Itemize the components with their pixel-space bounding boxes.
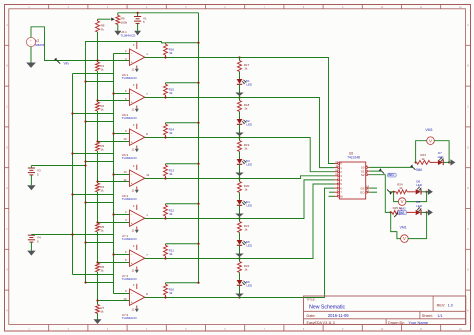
svg-text:TL084ACD: TL084ACD <box>122 116 138 120</box>
wire A2 out <box>370 175 391 213</box>
svg-text:TL084ACD: TL084ACD <box>122 316 138 320</box>
resistor R8 <box>96 19 105 60</box>
ground op-amp U7.2 <box>135 270 139 273</box>
svg-text:3k: 3k <box>169 131 173 135</box>
resistor R14 <box>164 122 200 138</box>
svg-text:1k: 1k <box>100 268 104 272</box>
ground D6 <box>235 294 243 298</box>
wire tap4 x85 <box>84 201 113 203</box>
resistor R21 <box>238 219 250 241</box>
svg-text:7k: 7k <box>101 27 105 31</box>
wire pin2 stage5 <box>112 213 129 215</box>
resistor R7 <box>96 301 105 320</box>
svg-text:C: C <box>6 106 8 109</box>
net flag Bit2 <box>394 211 406 217</box>
ground D2 <box>235 133 243 137</box>
resistor R15 <box>164 82 200 98</box>
svg-text:Your Name: Your Name <box>408 320 429 325</box>
svg-text:1k: 1k <box>421 157 425 161</box>
svg-text:1k: 1k <box>244 147 248 151</box>
svg-text:Bit1: Bit1 <box>388 173 394 177</box>
svg-text:S2: S2 <box>361 173 365 177</box>
wire tap3 x72 <box>71 152 113 154</box>
svg-text:LED: LED <box>246 284 253 288</box>
svg-text:10: 10 <box>123 137 127 141</box>
LED D3 <box>237 159 253 167</box>
ground ladder bottom <box>94 319 102 324</box>
label op-amp U7.3 <box>122 313 138 320</box>
svg-text:EasyEDA V3.11.3: EasyEDA V3.11.3 <box>307 321 335 325</box>
label op-amp U6.2 <box>122 113 138 120</box>
LED D1 <box>237 79 253 87</box>
svg-text:D: D <box>6 146 8 149</box>
wire pin2 stage6 <box>112 253 129 255</box>
wire pin2 stage7 <box>114 293 130 295</box>
voltage source V2 <box>26 37 45 47</box>
wire V4 to bus <box>31 233 73 235</box>
svg-text:D: D <box>467 146 469 149</box>
ground D1 <box>235 93 243 97</box>
op-amp U6.1 <box>125 42 148 72</box>
title block <box>304 296 466 325</box>
label op-amp U7.1 <box>122 234 138 241</box>
svg-text:11: 11 <box>131 68 134 72</box>
bus x113 <box>113 54 115 294</box>
svg-text:+: + <box>131 60 133 64</box>
wire D2 cathode <box>239 125 241 138</box>
wire pin2 stage2 <box>112 92 129 94</box>
svg-text:TL084ACD: TL084ACD <box>122 156 138 160</box>
svg-text:+: + <box>131 181 133 185</box>
svg-text:V: V <box>403 236 406 241</box>
wire stage2 to U8 <box>240 98 335 168</box>
wire vplus rail <box>86 42 166 61</box>
resistor R2 <box>96 101 105 142</box>
ground under R9 <box>114 25 121 36</box>
wire tap4 x72 <box>71 193 113 195</box>
resistor R9 <box>116 13 128 25</box>
resistor R5 <box>96 223 105 263</box>
svg-text:74LS148: 74LS148 <box>347 155 360 159</box>
wire VM3 right <box>434 141 449 163</box>
ground op-amp U7.3 <box>135 309 139 312</box>
wire V2 top to Vin <box>31 27 98 61</box>
svg-text:LED: LED <box>246 204 253 208</box>
svg-text:VM3: VM3 <box>425 128 432 132</box>
resistor R18 <box>238 98 250 120</box>
wire stage1 to U8 <box>240 58 335 164</box>
svg-text:+: + <box>131 261 133 265</box>
wire output stage5 <box>145 217 241 219</box>
label U6.1 power <box>121 30 137 37</box>
ground op-amp U6.1 <box>135 69 139 72</box>
ground under V3 <box>27 175 35 190</box>
resistor R3 <box>96 142 105 182</box>
battery V3 <box>28 166 41 177</box>
svg-text:1k: 1k <box>244 188 248 192</box>
svg-text:+: + <box>131 300 133 304</box>
wire VM2 left <box>394 192 399 202</box>
ground D5 <box>235 254 243 258</box>
svg-text:+: + <box>131 100 133 104</box>
wire stage7 to U8 <box>240 188 335 297</box>
wire A0 out <box>370 166 413 168</box>
svg-text:Date:: Date: <box>307 314 316 318</box>
LED D9 <box>416 200 423 215</box>
resistor R10 <box>164 282 200 298</box>
wire stage5 to U8 <box>240 180 335 219</box>
ground D3 <box>235 173 243 177</box>
wire pin3 stage3 <box>96 140 129 142</box>
wire pin2 stage1 <box>114 53 130 55</box>
LED D8 <box>416 180 423 195</box>
svg-text:VM1: VM1 <box>400 226 407 230</box>
wire tap1 x85 <box>84 80 113 82</box>
svg-text:100k: 100k <box>121 20 128 24</box>
label op-amp U7.2 <box>122 274 138 281</box>
wire tap1 x72 <box>73 73 114 75</box>
net flag into R24 <box>387 189 394 194</box>
voltmeter VM1 <box>400 226 409 243</box>
svg-text:−: − <box>131 292 133 296</box>
svg-text:−: − <box>131 213 133 217</box>
rail down right <box>198 13 200 283</box>
svg-text:1.0: 1.0 <box>448 303 453 307</box>
resistor R6 <box>96 263 105 301</box>
LED D2 <box>237 119 253 127</box>
ground op-amp U6.4 <box>135 190 139 193</box>
wire D5 cathode <box>239 246 241 259</box>
ground under V1 <box>134 23 141 35</box>
svg-text:1k: 1k <box>244 228 248 232</box>
svg-text:G: G <box>467 269 469 272</box>
battery V4 <box>28 235 41 244</box>
svg-text:11: 11 <box>131 269 134 273</box>
svg-text:1/1: 1/1 <box>437 314 442 318</box>
svg-text:V: V <box>401 199 404 204</box>
label op-amp U6.1 <box>122 73 138 80</box>
wire output stage1 <box>145 56 241 58</box>
wire stage3 to U8 <box>240 138 335 172</box>
resistor R22 <box>238 259 250 281</box>
wire tap5 x85 <box>84 241 113 243</box>
wire pin2 stage4 <box>112 173 129 175</box>
wire output stage2 <box>145 96 241 98</box>
svg-text:−: − <box>131 92 133 96</box>
svg-text:LED: LED <box>246 83 253 87</box>
svg-text:TL084ACD: TL084ACD <box>122 197 138 201</box>
wire pin2 stage3 <box>112 132 129 134</box>
svg-text:1k: 1k <box>100 67 104 71</box>
ground D4 <box>235 214 243 218</box>
wire V3 to bus <box>31 164 86 166</box>
resistor R16 <box>164 42 200 58</box>
wire D6 cathode <box>239 286 241 298</box>
ground op-amp U6.3 <box>135 149 139 152</box>
wire D1 cathode <box>239 85 241 98</box>
svg-text:−: − <box>131 52 133 56</box>
wire U8 pin4 stub <box>329 191 335 193</box>
wire stage6 to U8 <box>240 184 335 259</box>
svg-text:LED: LED <box>416 183 423 187</box>
resistor R17 <box>238 58 250 80</box>
wire output stage7 <box>145 296 241 298</box>
svg-text:3k: 3k <box>169 91 173 95</box>
op-amp U7.2 <box>125 244 148 272</box>
svg-text:1k: 1k <box>100 107 104 111</box>
svg-text:G: G <box>6 269 8 272</box>
svg-text:LED: LED <box>416 204 423 208</box>
op-amp U6.2 <box>125 83 148 111</box>
ground under V2 <box>26 47 36 68</box>
wire D4 cathode <box>239 206 241 219</box>
wire VM3 left <box>416 141 427 163</box>
svg-text:11: 11 <box>131 108 134 112</box>
svg-text:Vin: Vin <box>64 61 69 65</box>
resistor R11 <box>164 243 200 259</box>
svg-text:1k: 1k <box>244 107 248 111</box>
wire pin3 stage4 <box>96 180 129 182</box>
svg-text:12: 12 <box>123 178 127 182</box>
svg-text:TL084ACD: TL084ACD <box>122 237 138 241</box>
resistor R23 <box>415 153 438 164</box>
svg-text:LED: LED <box>438 155 445 159</box>
wire A1 out <box>370 170 382 172</box>
op-amp U6.4 <box>123 164 149 192</box>
ground under V4 <box>27 242 35 255</box>
net flag at R8 top <box>98 18 115 21</box>
bus x85 <box>85 61 87 283</box>
resistor R12 <box>164 203 200 219</box>
IC U8 74LS148 <box>335 152 370 199</box>
wire stage4 to U8 <box>240 176 335 179</box>
op-amp U6.3 <box>123 123 148 151</box>
wire VM1 left <box>391 212 401 238</box>
svg-text:Bit2: Bit2 <box>399 211 405 215</box>
svg-text:−: − <box>131 132 133 136</box>
svg-text:14: 14 <box>146 173 150 177</box>
battery V1 <box>134 13 147 24</box>
svg-text:3k: 3k <box>169 252 173 256</box>
svg-text:TL084ACD: TL084ACD <box>122 277 138 281</box>
svg-text:1k: 1k <box>399 206 403 210</box>
svg-text:Sheet:: Sheet: <box>422 314 433 318</box>
svg-text:LED: LED <box>246 123 253 127</box>
ground op-amp U7.1 <box>135 230 139 233</box>
voltmeter VM2 <box>398 198 406 211</box>
svg-text:REV:: REV: <box>437 303 446 307</box>
svg-text:−: − <box>131 253 133 257</box>
svg-text:Drawn By:: Drawn By: <box>388 321 405 325</box>
svg-text:source: source <box>35 43 45 47</box>
wire tap6 x85 <box>84 281 113 283</box>
ground D7 <box>449 159 455 165</box>
label op-amp U6.3 <box>122 153 138 160</box>
svg-text:LED: LED <box>246 163 253 167</box>
svg-text:Bit0: Bit0 <box>416 168 422 172</box>
wire pin3 stage2 <box>96 99 129 101</box>
svg-text:V: V <box>429 138 432 143</box>
svg-text:3k: 3k <box>169 291 173 295</box>
wire pin3 stage7 <box>96 299 129 301</box>
svg-text:EI: EI <box>340 195 343 199</box>
wire D7 cathode <box>444 161 451 163</box>
wire tap3 x85 <box>84 160 113 162</box>
svg-text:R25: R25 <box>393 206 399 210</box>
wire output stage6 <box>145 257 241 259</box>
bus x72 <box>72 74 74 275</box>
svg-text:+: + <box>131 140 133 144</box>
ground D8 <box>427 189 433 195</box>
wire D3 cathode <box>239 165 241 179</box>
wire EO stub <box>370 191 377 193</box>
wire U8 pin5 EI <box>329 195 335 197</box>
svg-text:1k: 1k <box>244 268 248 272</box>
wire pin3 stage5 <box>96 221 129 223</box>
resistor R13 <box>164 163 200 179</box>
ground op-amp U6.2 <box>135 109 139 112</box>
wire tap2 x72 <box>71 112 113 114</box>
svg-text:TITLE:: TITLE: <box>307 298 316 302</box>
wire VM2 right <box>406 192 427 202</box>
svg-text:1k: 1k <box>100 147 104 151</box>
resistor R25 <box>390 206 416 214</box>
resistor R20 <box>238 179 250 201</box>
svg-text:11: 11 <box>131 308 134 312</box>
resistor R1 <box>96 61 105 101</box>
svg-text:3k: 3k <box>169 172 173 176</box>
svg-text:11: 11 <box>131 148 134 152</box>
resistor R4 <box>96 182 105 223</box>
wire D9 cathode <box>421 211 427 213</box>
wire D8 cathode <box>421 191 427 193</box>
wire tap6 x72 <box>73 274 114 276</box>
resistor R24 <box>393 183 416 194</box>
voltmeter VM3 <box>425 128 434 144</box>
svg-text:TL084ACD: TL084ACD <box>122 76 138 80</box>
svg-text:+: + <box>131 221 133 225</box>
wire pin3 stage1 <box>96 59 129 61</box>
svg-text:11: 11 <box>131 189 134 193</box>
svg-text:C: C <box>467 106 469 109</box>
svg-text:H: H <box>467 310 469 313</box>
svg-text:2016-11-09: 2016-11-09 <box>328 313 349 318</box>
LED D6 <box>237 280 253 288</box>
LED D4 <box>237 200 253 208</box>
svg-text:H: H <box>6 310 8 313</box>
svg-text:11: 11 <box>131 229 134 233</box>
wire GS stub <box>370 187 377 189</box>
wire tap5 x72 <box>71 233 113 235</box>
wire pin3 stage6 <box>96 261 129 263</box>
LED D7 <box>438 151 445 165</box>
svg-text:1k: 1k <box>100 228 104 232</box>
svg-text:1k: 1k <box>100 188 104 192</box>
wire +5 top rail <box>118 12 199 14</box>
svg-text:3k: 3k <box>169 51 173 55</box>
net flag Bit1 <box>379 168 397 177</box>
wire output stage4 <box>145 177 241 179</box>
svg-text:LED: LED <box>246 244 253 248</box>
svg-text:New Schematic: New Schematic <box>309 304 345 310</box>
op-amp U7.1 <box>125 204 148 232</box>
svg-text:1k: 1k <box>244 67 248 71</box>
net flag Vin <box>54 58 69 66</box>
svg-text:13: 13 <box>123 170 127 174</box>
svg-text:−: − <box>131 173 133 177</box>
svg-text:1k: 1k <box>100 309 104 313</box>
wire VM1 right <box>408 212 427 238</box>
label op-amp U6.4 <box>122 194 138 201</box>
svg-text:10: 10 <box>123 297 127 301</box>
wire tap2 x85 <box>84 120 113 122</box>
svg-text:1k: 1k <box>399 186 403 190</box>
op-amp U7.3 <box>123 283 148 311</box>
wire output stage3 <box>145 136 241 138</box>
svg-text:3k: 3k <box>169 212 173 216</box>
LED D5 <box>237 240 253 248</box>
net flag Bit0 <box>410 164 422 172</box>
resistor R19 <box>238 138 250 160</box>
ground D9 <box>427 209 433 215</box>
svg-text:TL084ACD: TL084ACD <box>121 34 137 38</box>
